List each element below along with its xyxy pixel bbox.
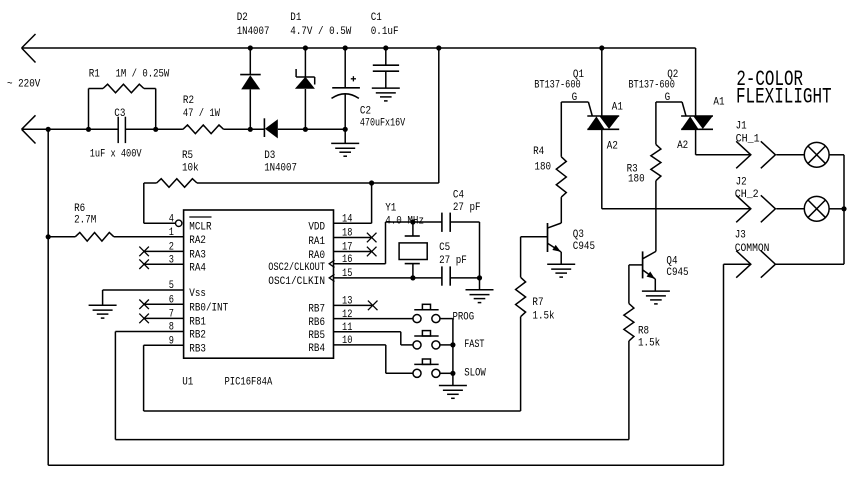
svg-text:BT137-600: BT137-600 (534, 79, 581, 91)
svg-text:10: 10 (342, 335, 352, 347)
svg-text:PROG: PROG (453, 311, 475, 323)
svg-text:R7: R7 (532, 297, 543, 309)
svg-text:18: 18 (342, 228, 352, 240)
svg-text:1uF x 400V: 1uF x 400V (90, 148, 142, 160)
svg-text:C945: C945 (573, 241, 595, 253)
svg-text:9: 9 (169, 335, 174, 347)
svg-text:CH_2: CH_2 (735, 189, 759, 201)
svg-text:D2: D2 (237, 12, 248, 24)
svg-text:C2: C2 (360, 106, 371, 118)
svg-text:BT137-600: BT137-600 (628, 79, 675, 91)
svg-text:0.1uF: 0.1uF (371, 26, 399, 38)
svg-text:47 / 1W: 47 / 1W (183, 108, 220, 120)
svg-text:C945: C945 (666, 267, 688, 279)
svg-text:180: 180 (534, 162, 551, 174)
svg-text:A2: A2 (677, 140, 688, 152)
svg-text:180: 180 (628, 173, 645, 185)
svg-text:5: 5 (169, 280, 174, 292)
svg-text:FAST: FAST (464, 339, 485, 351)
svg-text:Q3: Q3 (573, 229, 584, 241)
svg-text:RB7: RB7 (308, 304, 325, 316)
svg-text:8: 8 (169, 322, 174, 334)
svg-text:RB3: RB3 (189, 343, 206, 355)
svg-text:C3: C3 (114, 108, 125, 120)
svg-text:OSC2/CLKOUT: OSC2/CLKOUT (268, 262, 325, 274)
svg-text:PIC16F84A: PIC16F84A (225, 377, 273, 389)
svg-text:4.7V / 0.5W: 4.7V / 0.5W (290, 26, 351, 38)
svg-text:VDD: VDD (308, 222, 325, 234)
svg-text:4: 4 (169, 214, 175, 226)
svg-text:2: 2 (169, 242, 174, 254)
svg-text:C1: C1 (371, 12, 382, 24)
svg-text:RB6: RB6 (308, 317, 325, 329)
svg-text:D1: D1 (290, 12, 301, 24)
svg-text:RB5: RB5 (308, 330, 325, 342)
svg-text:11: 11 (342, 322, 353, 334)
svg-text:CH_1: CH_1 (736, 134, 760, 146)
svg-text:15: 15 (342, 268, 352, 280)
svg-text:G: G (665, 92, 671, 104)
svg-text:1.5k: 1.5k (532, 311, 555, 323)
svg-text:R2: R2 (183, 95, 194, 107)
svg-text:1N4007: 1N4007 (264, 162, 297, 174)
svg-text:16: 16 (342, 254, 352, 266)
svg-text:C4: C4 (453, 190, 464, 202)
svg-text:1: 1 (169, 227, 175, 239)
svg-text:RB2: RB2 (189, 330, 206, 342)
svg-text:3: 3 (169, 254, 174, 266)
svg-text:10k: 10k (182, 162, 199, 174)
svg-text:U1: U1 (182, 377, 193, 389)
svg-text:R1: R1 (89, 68, 100, 80)
svg-text:1M / 0.25W: 1M / 0.25W (116, 68, 170, 80)
svg-text:14: 14 (342, 214, 353, 226)
svg-text:7: 7 (169, 309, 174, 321)
svg-text:COMMON: COMMON (735, 243, 770, 255)
svg-text:SLOW: SLOW (464, 368, 486, 380)
svg-text:FLEXILIGHT: FLEXILIGHT (736, 84, 832, 109)
svg-text:R4: R4 (533, 146, 544, 158)
svg-text:R6: R6 (74, 203, 85, 215)
svg-text:RA0: RA0 (308, 250, 325, 262)
svg-text:1N4007: 1N4007 (237, 26, 270, 38)
svg-text:MCLR: MCLR (189, 222, 212, 234)
svg-text:470uFx16V: 470uFx16V (360, 117, 406, 129)
svg-text:6: 6 (169, 295, 174, 307)
svg-text:OSC1/CLKIN: OSC1/CLKIN (268, 276, 325, 288)
svg-text:A1: A1 (612, 101, 623, 113)
svg-text:J2: J2 (736, 176, 747, 188)
svg-text:RB0/INT: RB0/INT (189, 303, 228, 315)
svg-text:RA1: RA1 (308, 236, 325, 248)
svg-text:RB4: RB4 (308, 343, 325, 355)
svg-text:~ 220V: ~ 220V (7, 78, 41, 90)
svg-text:2.7M: 2.7M (74, 215, 96, 227)
svg-text:27 pF: 27 pF (439, 255, 467, 267)
svg-text:G: G (572, 92, 578, 104)
svg-text:A1: A1 (713, 96, 724, 108)
svg-text:27 pF: 27 pF (453, 202, 481, 214)
svg-text:RA2: RA2 (189, 235, 206, 247)
svg-text:13: 13 (342, 296, 352, 308)
svg-text:RB1: RB1 (189, 317, 206, 329)
svg-text:RA4: RA4 (189, 262, 206, 274)
svg-text:17: 17 (342, 242, 352, 254)
svg-text:Y1: Y1 (385, 203, 396, 215)
svg-text:R8: R8 (638, 326, 649, 338)
svg-text:RA3: RA3 (189, 250, 206, 262)
svg-text:A2: A2 (607, 140, 618, 152)
svg-text:Q4: Q4 (666, 256, 677, 268)
svg-text:C5: C5 (439, 242, 450, 254)
svg-text:D3: D3 (264, 150, 275, 162)
svg-text:1.5k: 1.5k (638, 338, 661, 350)
svg-text:12: 12 (342, 309, 352, 321)
svg-text:J1: J1 (736, 120, 747, 132)
svg-text:J3: J3 (735, 230, 746, 242)
svg-text:4.0 MHz: 4.0 MHz (385, 215, 424, 227)
svg-text:R5: R5 (182, 150, 193, 162)
svg-text:Vss: Vss (189, 288, 206, 300)
